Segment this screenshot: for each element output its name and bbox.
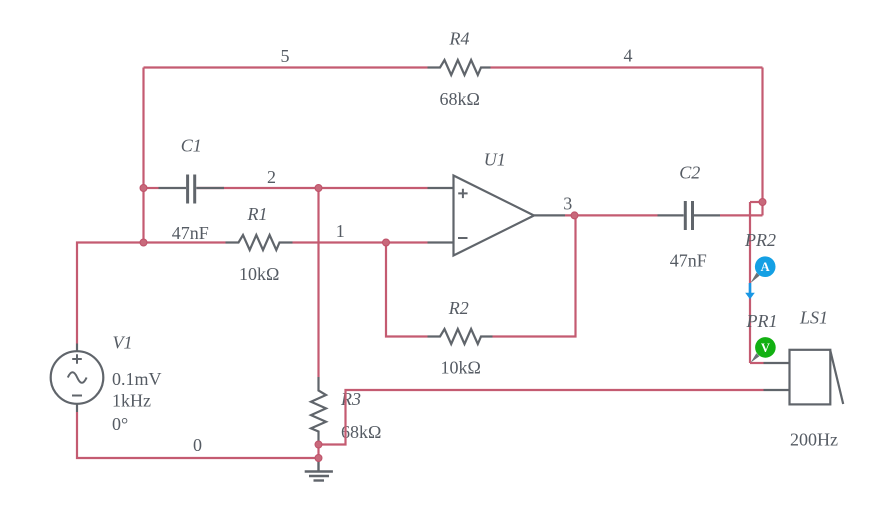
wire node to R1 left: [144, 241, 226, 243]
wire node2 to op-amp plus input: [319, 187, 428, 189]
probe PR1 voltage probe icon: [751, 337, 776, 363]
junction node 2: [315, 185, 322, 192]
wire node2 down to R3: [317, 188, 319, 377]
svg-text:R3: R3: [340, 389, 361, 409]
svg-text:200Hz: 200Hz: [790, 430, 838, 450]
svg-text:4: 4: [624, 46, 633, 66]
svg-text:R1: R1: [247, 204, 268, 224]
AC source V1: [51, 351, 104, 404]
svg-text:1: 1: [336, 221, 345, 241]
wire R2 right up to node3: [493, 215, 576, 336]
svg-text:R4: R4: [449, 29, 470, 49]
wire gray stub V1 top: [76, 344, 78, 352]
wire V1 bottom to ground node: [77, 412, 319, 458]
svg-text:68kΩ: 68kΩ: [341, 422, 381, 442]
wire node1 R1 right to op-amp minus: [293, 241, 428, 243]
capacitor C2: [658, 201, 721, 230]
svg-text:A: A: [761, 260, 770, 274]
junction node 4: [759, 199, 766, 206]
svg-text:10kΩ: 10kΩ: [441, 358, 481, 378]
wire node5 top horizontal: [144, 66, 428, 68]
wire PR2 vertical through probe: [749, 202, 751, 363]
svg-text:68kΩ: 68kΩ: [440, 89, 480, 109]
wire node2 middle segment: [197, 187, 319, 189]
probe PR2 current probe icon: [750, 256, 775, 283]
ground: [305, 458, 333, 481]
junction R3 bottom: [315, 441, 322, 448]
junction ground node 0: [315, 455, 322, 462]
wire node1 down to R2 left: [386, 243, 428, 337]
junction node2 at C1 left: [140, 185, 147, 192]
svg-text:C2: C2: [679, 162, 700, 182]
wire to speaker top lead: [750, 362, 764, 364]
wire V1 top to node: [77, 243, 144, 344]
wire gray stub op-amp output: [534, 214, 565, 216]
svg-text:PR1: PR1: [746, 311, 778, 331]
svg-text:10kΩ: 10kΩ: [239, 264, 279, 284]
wire node3 to C2 left: [565, 214, 658, 216]
svg-text:5: 5: [281, 46, 290, 66]
svg-text:3: 3: [563, 194, 572, 214]
svg-text:0: 0: [193, 435, 202, 455]
resistor R3: [311, 377, 326, 445]
op-amp U1: [454, 176, 535, 256]
svg-text:1kHz: 1kHz: [112, 391, 151, 411]
wire gray stub op-amp plus: [428, 187, 454, 189]
svg-text:V: V: [761, 341, 770, 355]
speaker LS1: [790, 350, 844, 405]
wire gray stub speaker bottom: [764, 389, 790, 391]
wire R3 bottom to speaker bottom: [319, 390, 764, 445]
wire node5 left vertical: [142, 68, 144, 243]
wire node2 left segment: [144, 187, 159, 189]
svg-text:LS1: LS1: [799, 308, 828, 328]
junction V1 top node: [140, 239, 147, 246]
svg-text:R2: R2: [448, 298, 469, 318]
resistor R2: [428, 329, 493, 344]
svg-text:C1: C1: [181, 135, 202, 155]
wire node4 top horizontal: [491, 66, 763, 68]
wire R3 bottom to ground node: [317, 445, 319, 459]
wire gray stub speaker top: [764, 362, 790, 364]
wire node4 jog left: [750, 201, 763, 203]
svg-text:0°: 0°: [112, 414, 128, 434]
resistor R4: [428, 60, 491, 75]
svg-text:U1: U1: [484, 150, 506, 170]
wire C2 right segment: [720, 214, 763, 216]
svg-text:47nF: 47nF: [670, 251, 707, 271]
svg-text:47nF: 47nF: [172, 223, 209, 243]
current direction arrow of PR2: [745, 283, 755, 299]
svg-text:2: 2: [267, 167, 276, 187]
wire gray stub V1 bottom: [76, 404, 78, 413]
svg-text:V1: V1: [113, 333, 133, 353]
wire node4 dot down to C2 wire: [761, 202, 763, 215]
resistor R1: [226, 235, 293, 250]
wire node4 right vertical: [761, 68, 763, 203]
capacitor C1: [159, 175, 225, 204]
junction node 1: [383, 239, 390, 246]
wire gray stub op-amp minus: [428, 241, 454, 243]
svg-text:PR2: PR2: [744, 230, 776, 250]
svg-text:0.1mV: 0.1mV: [112, 369, 162, 389]
junction node 3: [571, 212, 578, 219]
